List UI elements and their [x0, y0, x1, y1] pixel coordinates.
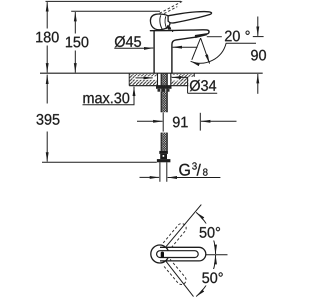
supply fitting column	[160, 154, 167, 159]
dimension 180	[36, 2, 58, 72]
top view body circle	[151, 245, 169, 263]
top view outer pill	[160, 247, 206, 261]
dimension 395	[37, 75, 157, 163]
aerator at spout tip	[195, 33, 207, 38]
top reference line (raised lever height)	[46, 0, 182, 2]
label max.30 with leader	[83, 87, 135, 105]
top view dashed pill upper	[163, 222, 188, 249]
label 50 upper	[200, 227, 220, 238]
supply fitting band	[159, 151, 168, 154]
faucet body top and spout outline	[150, 30, 209, 73]
threaded shank upper	[161, 74, 167, 113]
counter slab bottom line	[129, 85, 194, 87]
mounting hole right edge	[170, 73, 172, 85]
90 reference line at outlet	[207, 36, 222, 38]
washer under counter	[156, 86, 172, 89]
top view dashed pill lower	[163, 259, 188, 286]
angle 20 degrees annotation	[191, 31, 256, 64]
label G 3/8 with leaders	[140, 162, 221, 177]
counter slab section right block hatch	[171, 73, 194, 85]
dimension 91	[137, 112, 237, 131]
lever arm	[168, 12, 212, 23]
faucet body left edge	[153, 31, 155, 73]
label Ø45 with leader	[114, 36, 197, 48]
top view centerline	[206, 254, 228, 256]
lever pivot detail curve	[160, 15, 162, 29]
mounting hole left edge	[157, 73, 159, 85]
raised lever phantom dashed	[160, 1, 183, 13]
body step notch	[172, 30, 174, 32]
counter slab section left block hatch	[129, 73, 157, 85]
label Ø34 with leader	[136, 77, 219, 94]
threaded shank lower	[161, 133, 167, 151]
dimension 90	[251, 17, 266, 94]
label 50 lower	[202, 272, 222, 283]
angle 50 lower arc with arrows	[196, 255, 215, 297]
top view diagonal 50 down	[166, 262, 193, 297]
top view lever mark	[161, 252, 164, 258]
label 50 upper background	[198, 224, 225, 241]
top view diagonal 50 up	[166, 205, 201, 247]
dimension 150	[66, 11, 160, 72]
angle 50 upper arc with arrows	[196, 212, 215, 254]
label 50 lower background	[201, 269, 228, 286]
countertop reference line	[40, 72, 263, 74]
top view lever pill	[157, 251, 199, 258]
supply fitting flange G3/8	[157, 159, 171, 162]
lever grip	[150, 14, 170, 30]
lever grip shadow	[167, 25, 171, 30]
supply pipe outline	[160, 162, 167, 182]
lever grip front curve	[165, 16, 167, 29]
mounting nut	[158, 89, 170, 92]
